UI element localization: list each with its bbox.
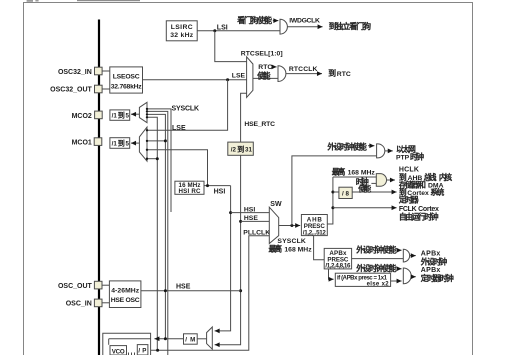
svg-text:IWDGCLK: IWDGCLK bbox=[289, 17, 320, 24]
svg-text:HSI RC: HSI RC bbox=[179, 188, 202, 195]
gate RTC AND bbox=[278, 66, 286, 82]
svg-text:RTC: RTC bbox=[337, 71, 351, 78]
oscillator HSE OSC box bbox=[102, 281, 141, 308]
wire AHB out up bbox=[327, 177, 333, 224]
svg-text:时钟: 时钟 bbox=[410, 151, 424, 161]
svg-text:定时器: 定时器 bbox=[399, 194, 419, 204]
svg-text:RTCSEL[1:0]: RTCSEL[1:0] bbox=[241, 51, 283, 58]
svg-text:LSI: LSI bbox=[217, 24, 228, 31]
svg-text:/2: /2 bbox=[231, 146, 237, 153]
wire HSE vertical (divider to HSE row and PLL mux) bbox=[215, 155, 241, 344]
svg-text:到: 到 bbox=[118, 139, 125, 147]
svg-text:LSEOSC: LSEOSC bbox=[113, 73, 140, 80]
svg-text:RTC: RTC bbox=[258, 64, 272, 71]
svg-text:HSE_RTC: HSE_RTC bbox=[244, 121, 275, 128]
wire MCO1 input LSE bbox=[147, 80, 228, 131]
svg-text:OSC32_OUT: OSC32_OUT bbox=[50, 87, 92, 94]
svg-text:/ M: / M bbox=[185, 337, 195, 344]
wire HSI output bbox=[204, 185, 231, 187]
node HSE row junction bbox=[239, 289, 242, 292]
node HSE-SW junction bbox=[239, 220, 242, 223]
wire HSI down to PLL mux bbox=[215, 186, 231, 331]
oscillator LSIRC box bbox=[166, 21, 197, 41]
node FCLK branch bbox=[331, 206, 334, 209]
gate IWDG AND bbox=[280, 19, 287, 34]
svg-text:LSE: LSE bbox=[172, 125, 186, 132]
PLL block outer box bbox=[103, 333, 151, 355]
svg-text:外设时钟: 外设时钟 bbox=[421, 256, 448, 266]
svg-text:HSE OSC: HSE OSC bbox=[111, 297, 140, 304]
wire enable1 arrow bbox=[398, 249, 402, 251]
svg-text:31: 31 bbox=[245, 146, 252, 153]
svg-text:5: 5 bbox=[126, 140, 130, 147]
wire HCLK row bbox=[333, 176, 376, 178]
wire SYSCLK out to AHB PRESC bbox=[279, 225, 301, 227]
svg-text:32 kHz: 32 kHz bbox=[170, 32, 194, 39]
wire PTP out bbox=[385, 150, 393, 152]
svg-text:到: 到 bbox=[328, 69, 336, 78]
svg-text:SW: SW bbox=[270, 201, 282, 208]
svg-text:自由运行时钟: 自由运行时钟 bbox=[399, 211, 439, 221]
svg-text:if (APBx presc = 1x1: if (APBx presc = 1x1 bbox=[337, 275, 388, 281]
svg-text:最高: 最高 bbox=[269, 244, 283, 254]
divider MCO2 /1 to 5 box bbox=[110, 110, 130, 120]
svg-text:外设时钟使能: 外设时钟使能 bbox=[356, 245, 397, 255]
wire AHB down to APBx PRESC bbox=[314, 236, 325, 260]
VCO box bbox=[110, 346, 127, 355]
node HSI-MCO junction bbox=[206, 184, 209, 187]
wire PLL mux out to /M bbox=[197, 338, 206, 340]
wire enable2 arrow bbox=[398, 268, 402, 270]
wire PLLCLK row to SW mux bbox=[148, 236, 269, 350]
wire PTP enable arrow bbox=[368, 145, 374, 147]
svg-text:/1: /1 bbox=[112, 113, 118, 120]
svg-text:RTCCLK: RTCCLK bbox=[289, 66, 318, 73]
node SYSCLK bbox=[290, 224, 293, 227]
mux MCO1 bbox=[139, 127, 147, 161]
wire IWDGCLK out bbox=[287, 26, 322, 28]
wire LSI down to RTCSEL mux bbox=[215, 31, 247, 62]
svg-text:使能: 使能 bbox=[257, 71, 271, 81]
svg-text:PTP: PTP bbox=[396, 154, 410, 161]
wire RTC enable arrow bbox=[272, 66, 277, 68]
wire SYSCLK up to PTP gate bbox=[292, 156, 377, 226]
wire LSE to RTCSEL mux bbox=[143, 79, 247, 81]
wire systick out bbox=[352, 191, 396, 193]
wire HCLK enable stub bbox=[371, 182, 376, 184]
svg-text:MCO1: MCO1 bbox=[72, 140, 92, 147]
wire RTCCLK out bbox=[286, 73, 322, 75]
node HSE-MCO junction bbox=[164, 289, 167, 292]
svg-text:HSI: HSI bbox=[244, 206, 255, 213]
wire MCO1 mux out bbox=[131, 142, 139, 144]
svg-text:到: 到 bbox=[237, 145, 244, 153]
prescaler APBx box bbox=[324, 248, 351, 269]
tick marks between VCO and P bbox=[128, 353, 130, 355]
cut text remnants top edge bbox=[27, 0, 33, 2]
bus line (device pin rail) bbox=[98, 20, 100, 355]
mux SW system clock bbox=[269, 207, 278, 243]
wire /M out into PLL bbox=[154, 338, 183, 340]
gate APBx timer AND bbox=[403, 268, 411, 284]
wire MCO2 input 2 bbox=[147, 111, 168, 355]
divider /8 box bbox=[339, 187, 352, 198]
svg-text:/8: /8 bbox=[342, 190, 350, 197]
wire APBx out to gate bbox=[352, 258, 404, 260]
svg-text:LSIRC: LSIRC bbox=[171, 24, 193, 31]
gate APBx peripheral AND bbox=[403, 249, 409, 262]
wire APBx timer out bbox=[411, 276, 416, 278]
gate PTP AND bbox=[377, 144, 385, 158]
svg-text:168 MHz: 168 MHz bbox=[284, 247, 312, 254]
wire APBx peripheral out bbox=[410, 255, 416, 257]
wire MCO2 input SYSCLK bbox=[147, 109, 171, 212]
svg-text:最高: 最高 bbox=[332, 166, 346, 176]
svg-text:HSI: HSI bbox=[214, 189, 226, 196]
svg-text:到独立看门狗: 到独立看门狗 bbox=[329, 21, 372, 31]
oscillator LSEOSC box bbox=[102, 67, 142, 93]
svg-text:else x2: else x2 bbox=[367, 282, 390, 288]
svg-text:总线、内核、: 总线、内核、 bbox=[424, 172, 458, 182]
svg-text:/ P: / P bbox=[138, 348, 146, 355]
node LSI bbox=[213, 29, 216, 32]
wire HSE row bbox=[141, 290, 241, 292]
divider /M box bbox=[184, 334, 198, 344]
divider /2到31 box bbox=[228, 142, 254, 155]
svg-text:看门狗使能: 看门狗使能 bbox=[237, 15, 272, 25]
svg-text:系统: 系统 bbox=[430, 187, 444, 197]
svg-text:到: 到 bbox=[118, 112, 125, 120]
svg-text:168 MHz: 168 MHz bbox=[348, 169, 376, 176]
svg-text:外设时钟使能: 外设时钟使能 bbox=[356, 263, 397, 273]
svg-text:定时器时钟: 定时器时钟 bbox=[421, 273, 454, 283]
mux MCO2 bbox=[139, 102, 147, 122]
svg-text:OSC32_IN: OSC32_IN bbox=[58, 69, 92, 76]
wire to /8 bbox=[333, 191, 339, 193]
svg-text:OSC_OUT: OSC_OUT bbox=[58, 283, 93, 290]
wire RTCSEL mux out bbox=[253, 77, 278, 79]
wire HSI row to SW mux bbox=[231, 212, 270, 214]
wire if box out to gate bbox=[391, 280, 402, 282]
/P box bbox=[137, 345, 148, 355]
condition box if APBx presc bbox=[335, 273, 390, 287]
wire MCO2 mux out bbox=[131, 113, 139, 115]
svg-text:HSE: HSE bbox=[244, 215, 258, 222]
svg-text:VCO: VCO bbox=[112, 349, 125, 355]
wire HCLK out bbox=[387, 179, 395, 181]
svg-text:/1,2,..512: /1,2,..512 bbox=[303, 229, 327, 236]
wire FCLK out bbox=[333, 207, 397, 209]
node PLLCLK-MCO junction bbox=[156, 349, 159, 352]
svg-text:MCO2: MCO2 bbox=[72, 113, 92, 120]
wire MCO2 input 4 bbox=[147, 117, 157, 350]
svg-text:32.768kHz: 32.768kHz bbox=[111, 83, 143, 90]
node HSI-SW junction bbox=[229, 211, 232, 214]
wire HSE_RTC into RTCSEL mux bbox=[241, 93, 247, 142]
svg-text:SYSCLK: SYSCLK bbox=[172, 106, 200, 113]
mux RTCSEL bbox=[247, 57, 253, 98]
gate HCLK AND bbox=[376, 174, 386, 187]
wire HSE row to SW mux bbox=[241, 220, 270, 222]
oscillator HSI RC box bbox=[175, 181, 204, 195]
prescaler AHB box bbox=[301, 215, 327, 237]
wire MCO1 input HSI bbox=[147, 150, 208, 186]
node LSE bbox=[226, 78, 229, 81]
svg-text:4-26MHz: 4-26MHz bbox=[111, 288, 140, 295]
divider MCO1 /1 to 5 box bbox=[110, 138, 130, 149]
wire MCO2 input 3 bbox=[147, 114, 165, 338]
svg-text:OSC_IN: OSC_IN bbox=[66, 301, 92, 308]
wire LSI to watchdog gate bbox=[197, 30, 280, 32]
svg-text:/1,2,4,8,16: /1,2,4,8,16 bbox=[325, 263, 351, 270]
svg-text:HSE: HSE bbox=[176, 284, 191, 291]
svg-text:5: 5 bbox=[126, 113, 130, 120]
wire watchdog enable arrow bbox=[273, 20, 279, 22]
svg-text:LSE: LSE bbox=[232, 73, 246, 80]
wire MCO1 input PLL tap bbox=[147, 158, 157, 160]
svg-text:外设时钟使能: 外设时钟使能 bbox=[327, 141, 367, 151]
node M-MCO junction bbox=[164, 337, 167, 340]
svg-text:PLLCLK: PLLCLK bbox=[243, 230, 270, 237]
svg-text:/1: /1 bbox=[112, 140, 118, 147]
mux PLL source bbox=[207, 327, 213, 349]
wire to if box bbox=[329, 269, 334, 279]
wire MCO1 input HSE tap bbox=[147, 140, 165, 142]
node systick branch bbox=[331, 191, 334, 194]
